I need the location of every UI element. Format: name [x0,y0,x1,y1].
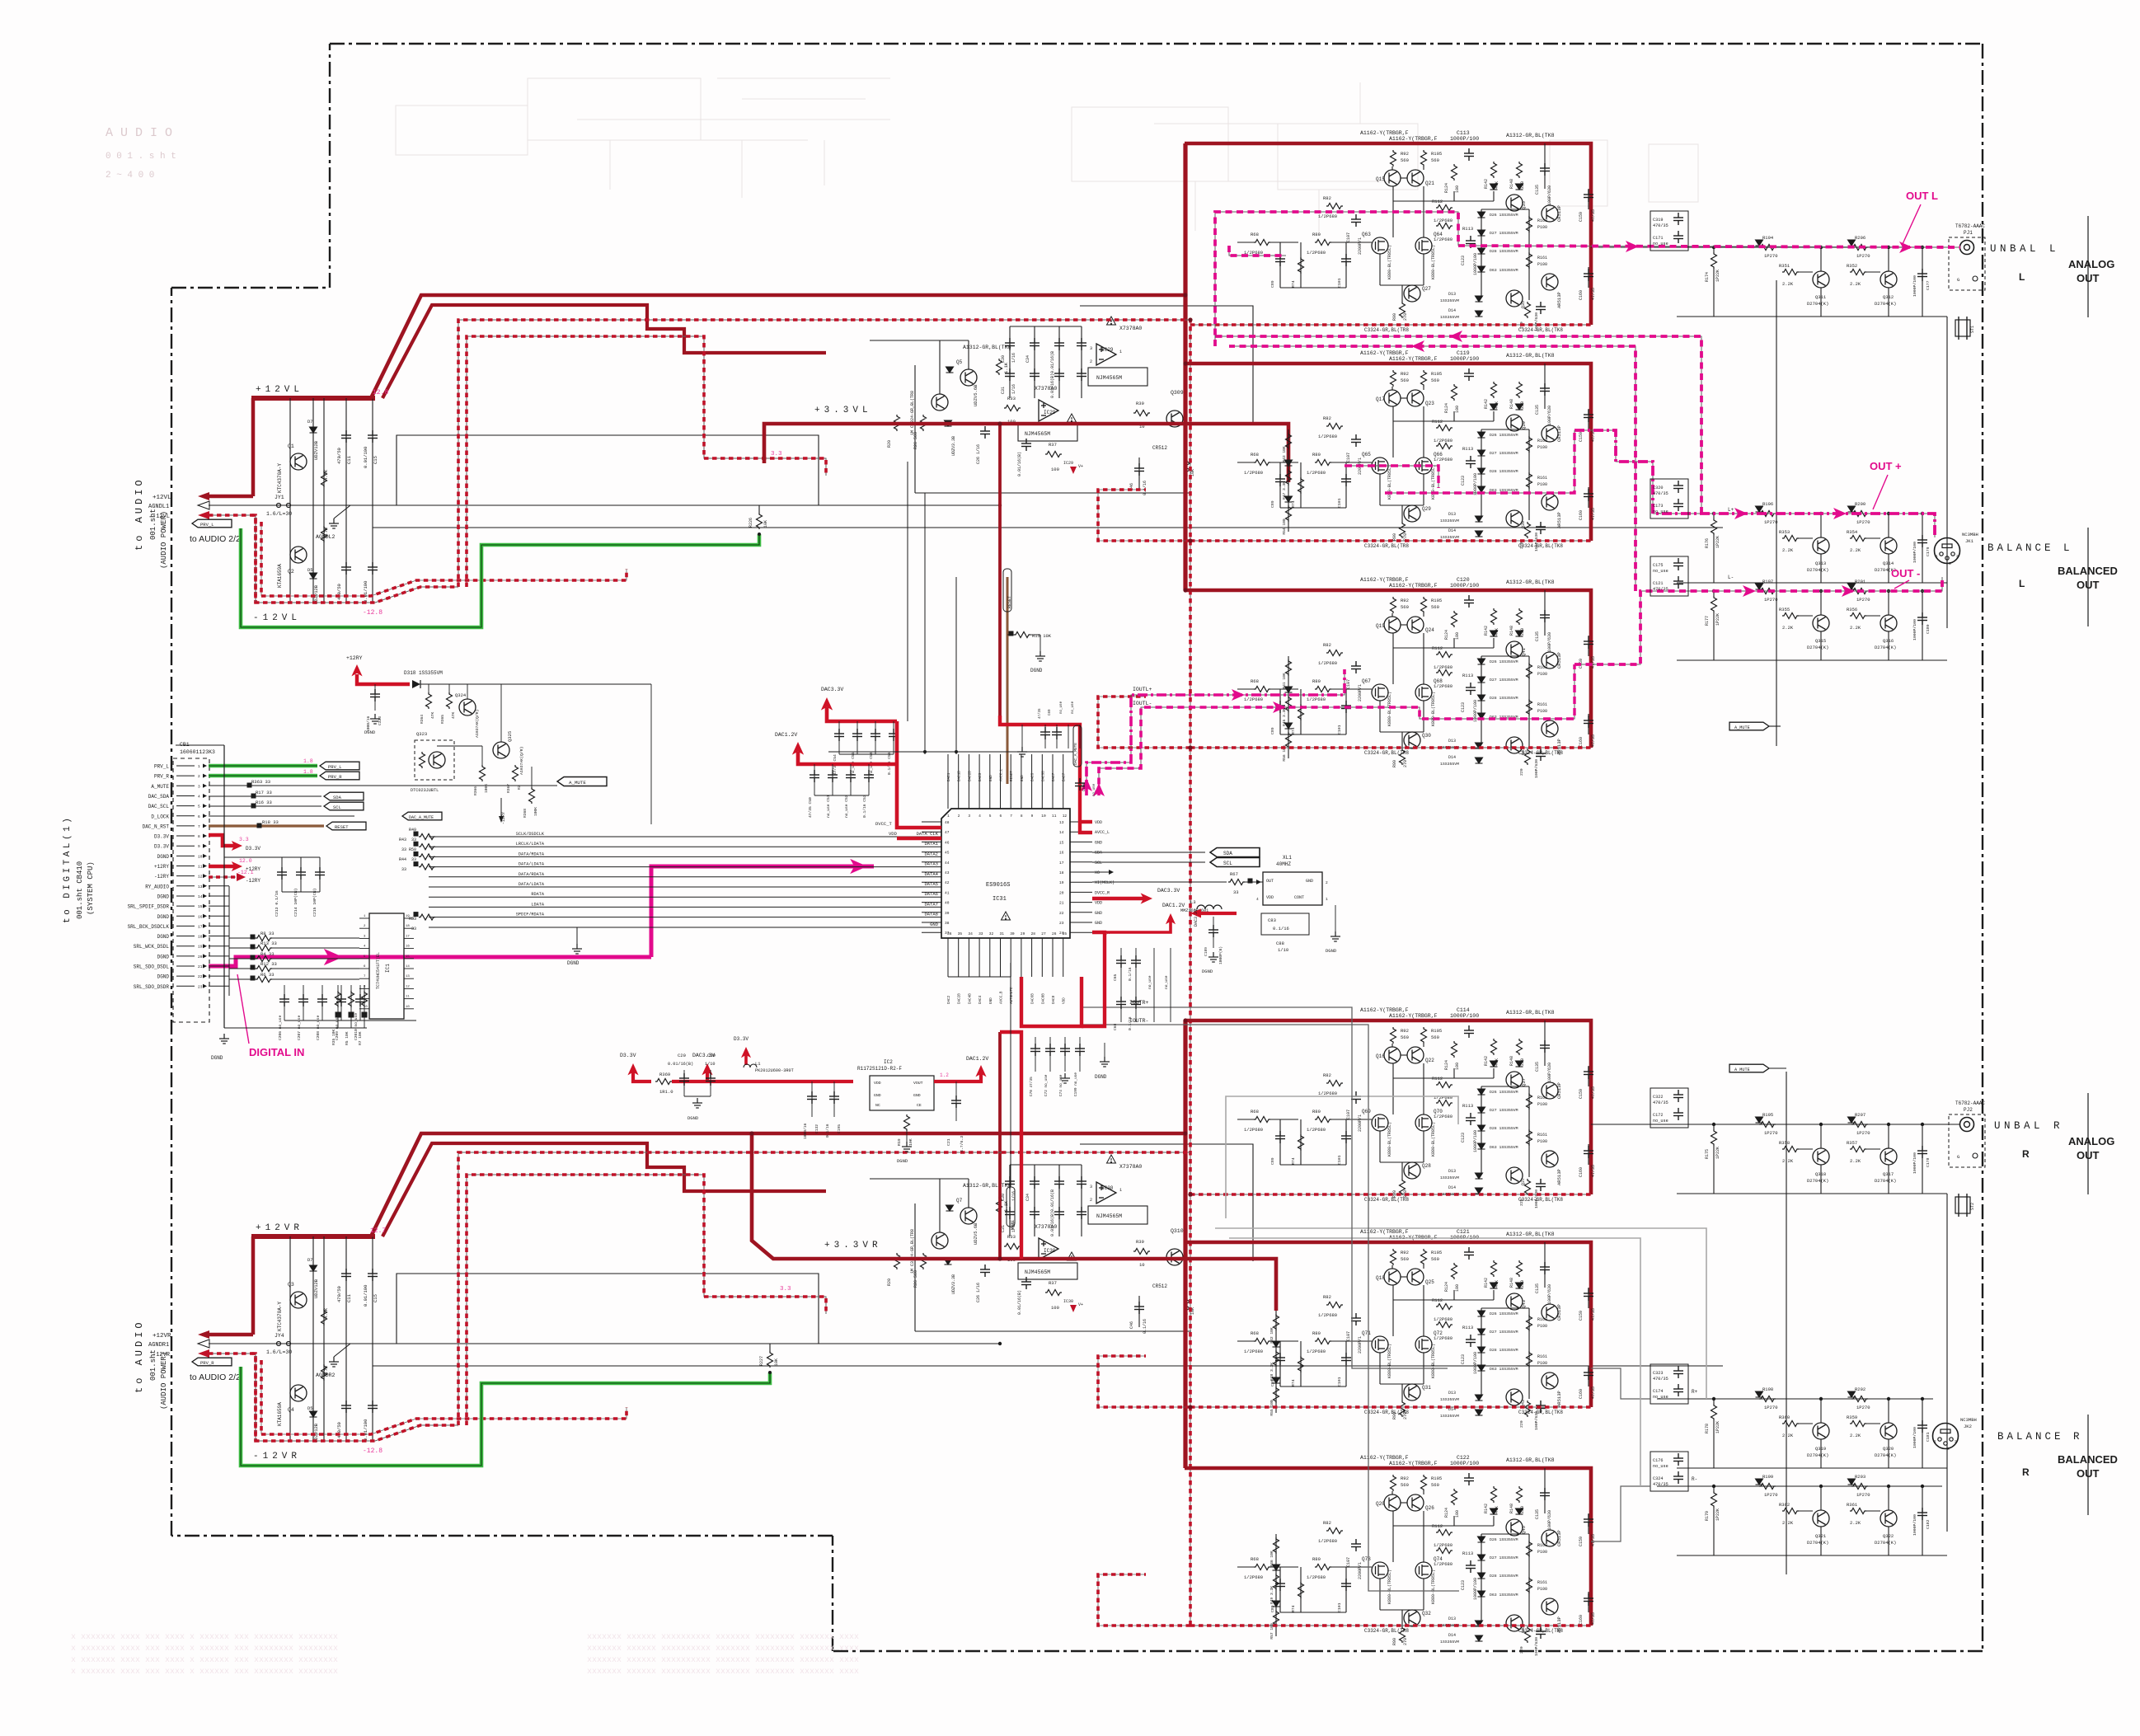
R160 R161 P100 [1527,1093,1532,1110]
svg-text:DGND: DGND [157,954,170,959]
zener D upper [310,427,317,433]
svg-text:2.2K: 2.2K [1850,1158,1861,1164]
svg-text:IOUTL-: IOUTL- [1133,701,1152,706]
svg-text:PJ2: PJ2 [1964,1107,1973,1113]
svg-text:18: 18 [406,925,410,928]
R368 100K [529,787,535,804]
svg-text:R35 10K: R35 10K [331,1029,336,1045]
svg-text:DAC1.2V: DAC1.2V [1162,903,1185,908]
svg-text:14: 14 [1059,830,1064,835]
svg-text:SCLK/DSDCLK: SCLK/DSDCLK [516,832,545,837]
svg-text:15: 15 [198,904,203,909]
transistor Q24 [1407,617,1424,633]
svg-text:DAC5B: DAC5B [1041,771,1045,781]
wire B6 output to R- net [1591,1486,1650,1541]
R vertical R175 [1711,1129,1717,1146]
svg-text:R148: R148 [1509,399,1514,409]
svg-text:Q23: Q23 [1425,401,1434,406]
-12RY stub down [500,798,502,816]
svg-text:R82: R82 [1323,1520,1331,1526]
DGND under IC1 [366,1020,368,1063]
svg-text:1M C3324-GR,BL(TR8: 1M C3324-GR,BL(TR8 [910,391,915,435]
mid wiring [428,684,429,692]
svg-text:100: 100 [1455,1510,1460,1518]
svg-text:1000P/100: 1000P/100 [1912,619,1917,640]
svg-text:DAC5: DAC5 [1031,772,1035,781]
svg-text:560: 560 [1431,1035,1439,1040]
black net verticals above IC31 [907,462,908,721]
svg-text:C176: C176 [1653,1458,1663,1463]
svg-text:C3324-GR,BL(TK8: C3324-GR,BL(TK8 [1518,543,1563,549]
+12VR feed arrow [251,1236,256,1335]
R vertical R174 [1711,252,1717,269]
svg-text:GND: GND [874,1093,881,1098]
svg-text:Q27: Q27 [1422,286,1431,292]
svg-text:RDATA: RDATA [531,892,544,897]
svg-text:1P270: 1P270 [1856,1405,1870,1410]
svg-text:1P270: 1P270 [1856,519,1870,525]
R R195 inline [1759,1122,1776,1128]
supply component ladder [289,1236,291,1441]
zener UDZV5.6B [946,1205,954,1211]
R366 100K [480,765,486,781]
svg-text:P100: P100 [1537,1587,1547,1592]
svg-text:C107: C107 [1346,1331,1351,1341]
ST1 jumper [1955,320,1970,336]
svg-text:(AUDIO POWER): (AUDIO POWER) [160,511,168,569]
R112 R113 feedback [1436,425,1452,431]
svg-text:R68: R68 [1251,452,1259,457]
svg-text:DAC3.3V: DAC3.3V [1194,909,1199,927]
svg-text:Q2: Q2 [288,569,294,575]
svg-text:470/35: 470/35 [1653,1377,1668,1382]
svg-text:R80: R80 [1312,1109,1321,1114]
svg-text:13: 13 [406,975,410,978]
upper output Q48 CR513P [1542,1304,1558,1321]
svg-text:GND: GND [989,997,993,1004]
svg-text:29: 29 [1021,931,1025,936]
svg-text:D13: D13 [1448,292,1456,297]
block internal wiring [1392,1285,1394,1336]
svg-text:DTC023JUBTL: DTC023JUBTL [411,788,439,793]
svg-text:2.2K: 2.2K [1782,281,1794,287]
svg-text:1/2P680: 1/2P680 [1244,1574,1263,1580]
svg-text:1SS355VM: 1SS355VM [1440,762,1459,767]
svg-text:R6 33: R6 33 [260,972,275,978]
R82 1/2P680 [1326,424,1343,429]
svg-text:22: 22 [198,974,203,979]
svg-text:DAC8: DAC8 [1052,995,1056,1004]
svg-text:IC30: IC30 [1101,1185,1114,1191]
svg-text:R16 33: R16 33 [256,800,272,805]
+12VR vertical trunk [1183,1020,1187,1468]
svg-text:1/2P680: 1/2P680 [1318,660,1337,666]
transistor Q16 [1384,1047,1401,1063]
svg-text:CR512: CR512 [1152,1283,1167,1289]
svg-text:A1312-GR,BL(TK8: A1312-GR,BL(TK8 [1506,133,1555,138]
svg-text:Q39: Q39 [1521,521,1526,528]
svg-text:100: 100 [1051,467,1059,472]
svg-text:1/2P680: 1/2P680 [1434,1335,1452,1341]
R82 1/2P680 [1326,1302,1343,1308]
svg-text:Q17: Q17 [1376,396,1385,402]
svg-text:R359: R359 [1847,1415,1857,1420]
svg-text:0.1/16: 0.1/16 [825,1124,830,1138]
svg-text:Q25: Q25 [1425,1279,1434,1285]
svg-text:+12RY: +12RY [346,655,363,661]
svg-text:0.1/16 C53: 0.1/16 C53 [862,795,867,818]
svg-text:D27 1SS355VM: D27 1SS355VM [1490,451,1518,456]
cap C181 [1922,1399,1923,1468]
svg-text:GND: GND [1095,840,1102,845]
svg-text:UDZV12B: UDZV12B [313,440,319,460]
svg-text:C89: C89 [1270,280,1275,288]
R channel IOUT gray feeds [1080,1007,1448,1368]
svg-text:1P270: 1P270 [1856,1492,1870,1498]
svg-text:Q45: Q45 [1521,1526,1527,1534]
svg-text:R92: R92 [1401,1250,1409,1255]
R39 10 [1133,1249,1150,1255]
svg-text:1P270: 1P270 [1856,253,1870,259]
svg-text:R80: R80 [1312,1330,1321,1336]
svg-text:DGND: DGND [1030,668,1043,673]
clamp Q318 [1813,1148,1829,1165]
data bus lines [429,836,941,838]
svg-text:2: 2 [1326,880,1328,885]
svg-text:C179: C179 [1926,547,1931,556]
svg-text:R68: R68 [1251,678,1259,684]
L- C175 pair [1650,556,1688,596]
CB1 trunk vertical + DGND [223,745,225,1028]
svg-text:160601123K3: 160601123K3 [180,749,215,755]
svg-text:DAC4B: DAC4B [968,993,972,1004]
svg-text:R365: R365 [440,715,445,724]
svg-text:3: 3 [1949,561,1951,566]
svg-text:R198: R198 [1762,1386,1773,1392]
svg-text:1/2P680: 1/2P680 [1434,1542,1452,1548]
tail transistor Q27 [1404,732,1420,748]
svg-text:3: 3 [198,784,200,789]
svg-text:DAC1B: DAC1B [958,771,962,781]
svg-text:Q18: Q18 [1376,1275,1385,1281]
svg-text:14: 14 [198,894,203,899]
svg-text:17: 17 [1059,861,1064,866]
svg-text:20: 20 [1059,890,1064,895]
svg-text:R202: R202 [1855,1386,1865,1392]
svg-text:11: 11 [1052,814,1057,819]
svg-text:1.6/L=30: 1.6/L=30 [266,511,292,517]
svg-text:R197: R197 [1762,579,1773,584]
R364 R365 47K [426,692,432,709]
svg-text:PRV_L: PRV_L [328,764,342,770]
svg-text:C122: C122 [1457,1455,1470,1461]
block1 magenta loop [1215,212,1458,346]
R227 10K [767,1351,773,1368]
R142 47K [1491,1260,1497,1277]
svg-text:1000P/100: 1000P/100 [1473,1352,1478,1374]
svg-text:+3.3VL: +3.3VL [814,406,872,415]
svg-text:38: 38 [945,921,950,926]
diode ladder D26-D28 [1478,212,1485,218]
svg-text:C89: C89 [1270,1157,1275,1165]
clamp Q320 [1880,1423,1897,1439]
RCA jack PJ2 [1949,1114,1985,1167]
svg-text:C175: C175 [1653,563,1663,568]
svg-text:T6782-AAAC: T6782-AAAC [1955,1100,1985,1106]
svg-text:47/35: 47/35 [1591,1308,1596,1321]
C46 / R349 [1138,1296,1140,1327]
svg-text:1/2P680: 1/2P680 [1318,434,1337,439]
svg-text:C182: C182 [1926,1519,1931,1529]
+3.3VR line [752,1133,1276,1311]
IC1 to bus jog [414,917,429,919]
svg-text:1/2P680: 1/2P680 [1244,697,1263,702]
svg-text:Q65: Q65 [1362,452,1371,457]
svg-text:NJM4565M: NJM4565M [1025,431,1050,437]
green PRV_R pin route [209,774,317,778]
svg-text:-12RY: -12RY [154,874,169,880]
svg-text:560: 560 [1431,157,1439,163]
R112 R113 feedback [1436,205,1452,211]
svg-text:1/2P680: 1/2P680 [1434,664,1452,670]
svg-text:R105: R105 [1431,371,1442,377]
svg-text:VDD: VDD [874,1081,881,1086]
transistor Q upper [290,1292,307,1308]
svg-text:D3.3V: D3.3V [620,1053,636,1058]
svg-text:A1162-Y(TRBGR,F: A1162-Y(TRBGR,F [1389,1013,1438,1019]
C21 4.7/6.3 [955,1081,957,1121]
svg-text:C19: C19 [707,1053,716,1058]
svg-text:Q37: Q37 [1521,1078,1527,1086]
svg-text:Q21: Q21 [1425,181,1434,186]
C132 C195 caps [811,1081,813,1117]
svg-text:Q310: Q310 [1171,1228,1184,1234]
svg-text:1: 1 [1934,1439,1936,1444]
svg-text:IC29: IC29 [1101,347,1114,353]
svg-text:D2704(K): D2704(K) [1875,1178,1896,1184]
svg-text:1P22K: 1P22K [1715,536,1720,548]
C206-C210 no_use caps [284,985,285,1020]
svg-text:10: 10 [1041,814,1046,819]
svg-text:15: 15 [1059,840,1064,845]
svg-text:V+: V+ [1078,1302,1083,1307]
svg-text:C72 no_use: C72 no_use [1044,1074,1049,1096]
svg-text:R37: R37 [1049,1280,1057,1286]
svg-text:no_use: no_use [1653,1395,1668,1400]
IOUTL+ highlight [1086,669,1345,795]
svg-text:C121: C121 [1653,581,1663,586]
svg-text:R19: R19 [897,1138,902,1146]
svg-text:-12.8: -12.8 [363,609,382,617]
R33 100 [1004,1244,1021,1250]
svg-text:Q26: Q26 [1425,1505,1434,1511]
svg-text:VDD: VDD [1095,820,1102,825]
svg-text:Q35: Q35 [1521,201,1527,209]
svg-text:C160: C160 [1579,510,1584,520]
driver Q35 [1506,1293,1523,1310]
+12VL rail [251,396,375,401]
svg-text:R67: R67 [1230,871,1238,877]
svg-text:to AUDIO: to AUDIO [134,476,145,551]
svg-text:1000P/100: 1000P/100 [1450,1461,1479,1466]
svg-text:D14: D14 [1448,308,1456,313]
R R197 inline [1759,589,1776,594]
C159 47/35 [1588,189,1589,209]
wire OUT+ L signal [1657,513,1935,514]
svg-text:Q68: Q68 [1434,678,1443,684]
svg-text:Q15: Q15 [1376,176,1385,182]
long 3.3V vertical tie upper (AVCC_L feed) [998,424,1002,716]
svg-text:K880-BL(TR85L): K880-BL(TR85L) [1431,1569,1436,1604]
wire AGND bus R [265,1343,1000,1344]
R160 R161 P100 [1527,216,1532,232]
svg-text:R177: R177 [1705,616,1710,626]
svg-text:1: 1 [1326,897,1328,902]
svg-text:R74: R74 [1291,1605,1296,1612]
svg-text:C89: C89 [1270,500,1275,508]
svg-text:GND: GND [1095,911,1102,916]
svg-text:AVCC_L: AVCC_L [1000,768,1004,781]
output Q49 AR513P [1542,720,1558,737]
svg-text:1000/16: 1000/16 [803,1123,808,1139]
svg-text:46: 46 [945,840,950,845]
C160 47/35 [1588,1366,1589,1386]
svg-text:no_use: no_use [1653,1119,1668,1124]
svg-text:12: 12 [198,875,203,880]
svg-text:270: 270 [1403,760,1408,767]
R112 R113 feedback [1436,1530,1452,1536]
svg-text:R82: R82 [1323,642,1331,648]
svg-text:no_use: no_use [1653,1464,1668,1469]
mosfet Q69 [1372,1114,1388,1131]
C123 1000P/100 [1466,456,1476,468]
svg-text:NC3MBH: NC3MBH [1960,1417,1977,1423]
svg-text:C180: C180 [1926,624,1931,634]
svg-text:A_MUTE: A_MUTE [569,780,586,786]
R vertical R176 [1711,518,1717,535]
svg-text:470/50: 470/50 [336,448,342,464]
diode D63 [1478,1143,1485,1149]
svg-text:R113: R113 [1462,1103,1473,1109]
svg-text:no_use: no_use [1093,783,1096,796]
R142 47K [1491,1039,1497,1055]
svg-text:R160: R160 [1537,665,1547,670]
A_MUTE tag L [1729,722,1769,730]
svg-text:D63 1SS355VM: D63 1SS355VM [1490,268,1518,273]
svg-text:220: 220 [1520,628,1525,636]
svg-text:R80: R80 [1312,232,1321,237]
R149 220 C136 [1525,302,1531,318]
svg-text:C3324-GR,BL(TK8: C3324-GR,BL(TK8 [1518,750,1563,756]
svg-text:K880-BL(TR85L): K880-BL(TR85L) [1431,692,1436,726]
svg-text:R82: R82 [1323,1294,1331,1300]
svg-text:100P/630: 100P/630 [1534,1637,1539,1656]
svg-text:+12VR: +12VR [153,1333,171,1340]
C123 1000P/100 [1466,1113,1476,1125]
svg-text:VOUT: VOUT [913,1081,923,1086]
svg-text:6: 6 [198,814,200,819]
svg-text:1000P/100: 1000P/100 [1912,1514,1917,1536]
svg-text:VDD: VDD [1063,997,1067,1004]
svg-text:Q72: Q72 [1434,1330,1443,1336]
svg-text:D2704(K): D2704(K) [1807,1540,1828,1546]
OUT- highlight [1574,577,1942,664]
output Q49 AR513P [1542,1151,1558,1167]
svg-text:10: 10 [198,854,203,859]
svg-text:C320: C320 [1653,486,1663,490]
IC31 ES9016S body [941,809,1070,938]
svg-text:C324: C324 [1653,1476,1663,1481]
svg-text:D_LOCK: D_LOCK [151,814,169,819]
svg-text:1/2P680: 1/2P680 [1244,1127,1263,1133]
bias column block6 [1275,1534,1277,1636]
svg-text:RESET: RESET [1010,771,1014,781]
svg-text:CR512: CR512 [1152,445,1167,451]
svg-text:5: 5 [198,805,200,809]
svg-text:+12VL: +12VL [153,495,171,501]
svg-text:1: 1 [947,814,950,819]
svg-text:1/2P680: 1/2P680 [1434,1316,1452,1322]
C323 cap [374,684,376,711]
upper output Q48 CR513P [1542,1530,1558,1546]
D_LOCK wire [209,815,354,817]
svg-text:1/2P680: 1/2P680 [1307,1574,1326,1580]
svg-text:D2704(K): D2704(K) [1875,1452,1896,1458]
R142 47K [1491,1486,1497,1503]
svg-text:D28 1SS355VM: D28 1SS355VM [1490,249,1518,254]
svg-text:D2704(K): D2704(K) [1807,567,1828,573]
svg-text:Q64: Q64 [1434,232,1443,237]
R19 10K [904,1114,910,1131]
A_MUTE pin wire [209,785,528,786]
C135 100P/630 [1544,364,1546,409]
svg-text:C3324-GR,BL(TR8: C3324-GR,BL(TR8 [1364,543,1409,549]
svg-text:SDA: SDA [1095,851,1102,856]
svg-text:1000P/100: 1000P/100 [1912,275,1917,297]
RESET tag vertical [1007,577,1009,784]
svg-text:C173: C173 [1653,504,1663,509]
svg-text:A1312-GR,BL(TK8: A1312-GR,BL(TK8 [1506,353,1555,359]
svg-text:44: 44 [945,861,950,866]
svg-text:K880-BL(TR85L): K880-BL(TR85L) [1387,1569,1392,1604]
R- C176 pair [1650,1452,1688,1491]
svg-text:CR513P: CR513P [1556,1082,1562,1099]
red feed into DVCC_T/VDD pins [897,721,941,828]
svg-text:PRV_R: PRV_R [200,1360,214,1366]
svg-text:D2704(K): D2704(K) [1875,301,1896,307]
C123 1000P/100 [1466,1560,1476,1573]
bus DGND [576,927,578,944]
AVCC_L red nest above IC [1000,716,1092,833]
svg-text:Q1: Q1 [288,443,294,449]
collector line above IC31 [828,751,1073,753]
svg-text:C11: C11 [346,1293,352,1302]
svg-text:R26 560: R26 560 [913,1270,918,1288]
svg-text:LDATA: LDATA [531,902,544,907]
R142 47K [1491,608,1497,625]
svg-text:D28 1SS355VM: D28 1SS355VM [1490,469,1518,474]
svg-text:x xxxxxxx xxxx xxx xxxx x xxxx: x xxxxxxx xxxx xxx xxxx x xxxxxx xxx xxx… [71,1633,338,1642]
C160 47/35 [1588,487,1589,508]
svg-text:R17 33: R17 33 [256,790,272,795]
svg-text:C15: C15 [373,456,378,464]
svg-text:R142: R142 [1484,1504,1489,1513]
svg-text:Q20: Q20 [1376,1501,1385,1507]
svg-text:33: 33 [411,927,416,931]
svg-text:C160: C160 [1579,1167,1584,1177]
svg-text:40: 40 [945,901,950,906]
zener D upper [310,1265,317,1271]
